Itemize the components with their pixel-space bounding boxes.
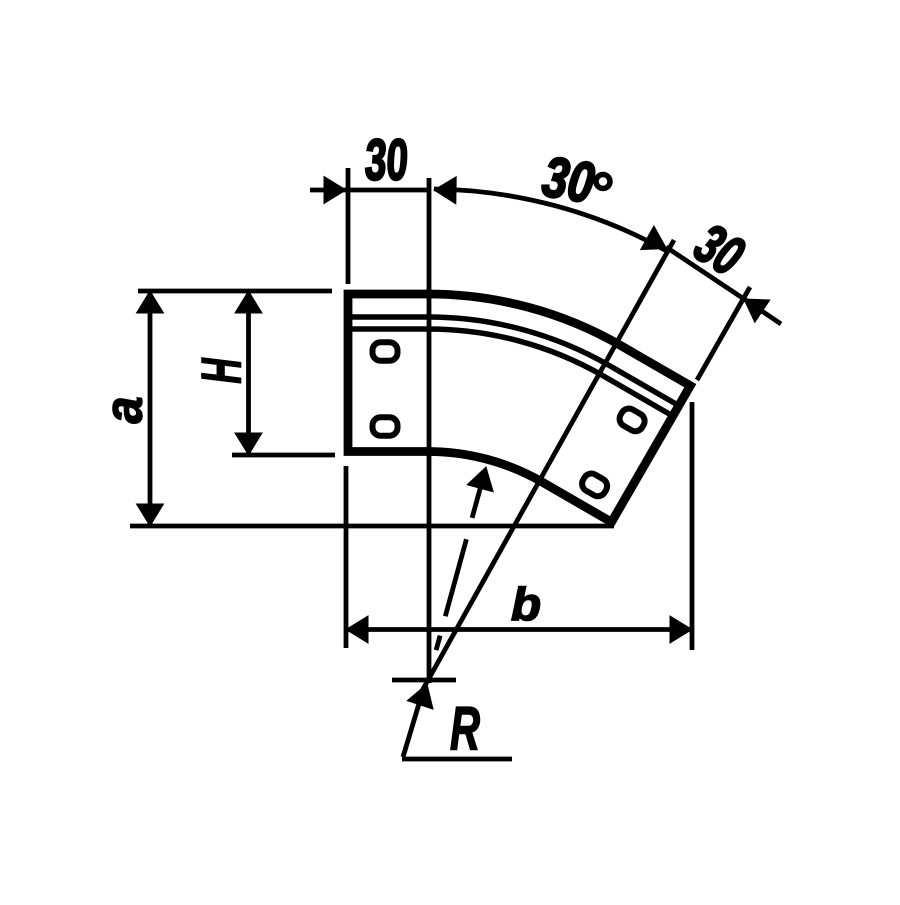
R radius dashed line — [436, 477, 483, 650]
svg-text:30: 30 — [538, 144, 598, 215]
radial line — [418, 240, 674, 698]
arrow arc end (points along arc) — [641, 226, 667, 250]
ext line y=455 — [232, 453, 335, 458]
svg-text:a: a — [94, 397, 153, 424]
ext line left x=348 — [346, 168, 351, 284]
R leader horizontal — [402, 757, 512, 762]
arrow rotated dim outer (points up-left) — [744, 299, 770, 322]
arrow top dim left (points right) — [324, 177, 346, 204]
svg-text:30: 30 — [363, 128, 410, 193]
arrow a bottom — [137, 504, 164, 526]
arrow H top — [235, 291, 262, 313]
R leader shaft — [403, 697, 421, 757]
centre mark — [392, 678, 456, 683]
flange line 2 — [348, 329, 673, 416]
arrow R leader at centre — [407, 684, 433, 709]
ext line bottom y=526 — [130, 524, 614, 529]
hole right-bottom — [579, 471, 610, 500]
arrow b left — [346, 616, 368, 643]
curved bracket body outline — [348, 294, 690, 522]
arrow a top — [137, 291, 164, 313]
ext line x=429 down to centre — [427, 178, 432, 683]
hole right-top — [617, 406, 648, 435]
hole left-top — [373, 342, 398, 361]
svg-text:b: b — [511, 579, 541, 630]
rotated dim line 30 — [666, 247, 744, 299]
svg-text:R: R — [450, 696, 480, 764]
dim line b — [346, 627, 692, 632]
top dim line 30 — [310, 188, 429, 193]
rotated dim arrow tail — [744, 299, 781, 324]
rotated ext line — [697, 287, 750, 380]
arrow R radius at arc — [467, 467, 493, 492]
svg-text:H: H — [190, 357, 252, 383]
flange line 1 — [348, 317, 679, 406]
dim line H — [246, 291, 251, 455]
arc dimension line 30deg — [434, 189, 668, 251]
ext line top y=291 — [138, 289, 332, 294]
ext line b left — [344, 466, 349, 648]
hole left-bottom — [373, 417, 398, 436]
ext line b right — [690, 402, 695, 650]
degree sign — [596, 175, 610, 189]
arrow arc start (points left) — [434, 177, 456, 204]
dim line a — [148, 291, 153, 526]
arrow H bottom — [235, 433, 262, 455]
arrow b right — [670, 616, 692, 643]
